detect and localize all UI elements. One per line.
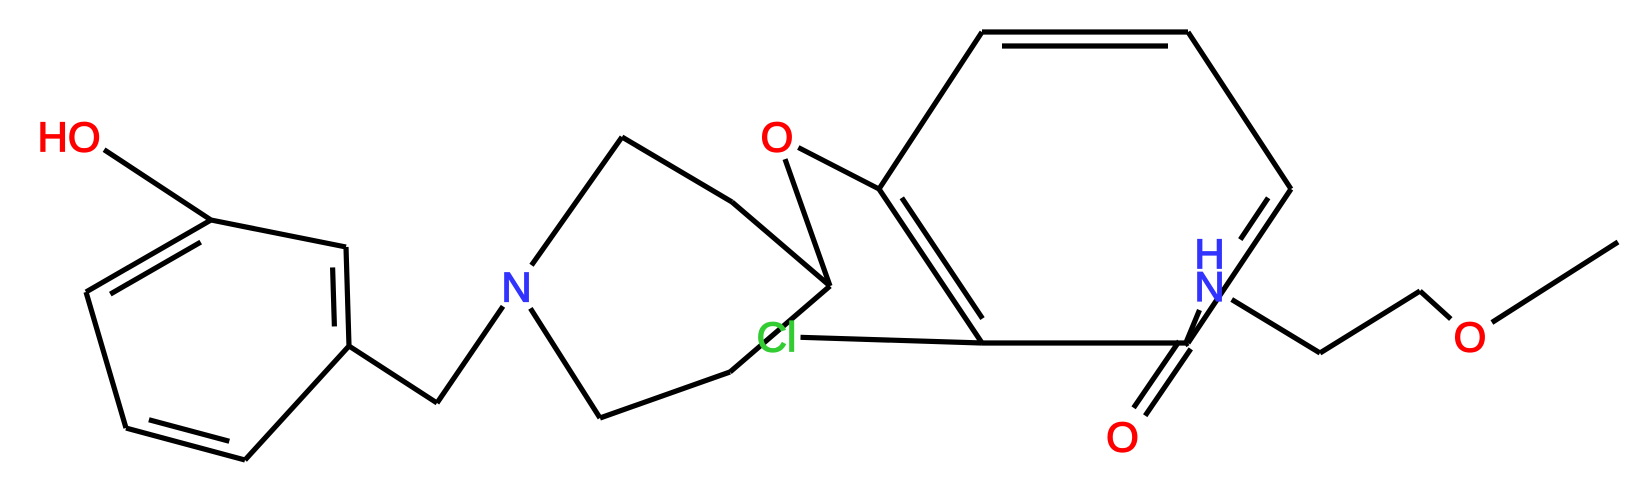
benzene inner double D-E: [1240, 198, 1268, 240]
svg-text:Cl: Cl: [757, 314, 797, 361]
bond O(phenol)-C1: [104, 150, 211, 220]
bond Ar-Cl: [801, 337, 983, 343]
phenol ring edge C4-C5: [245, 346, 349, 460]
bond O(ether)-Ar: [798, 148, 879, 190]
bond C(carbonyl)-N: [1185, 310, 1200, 345]
piperidine C5-C6: [600, 372, 730, 418]
benzene edge F-A: [879, 189, 982, 343]
phenol inner double C1-C2: [110, 242, 200, 294]
phenol inner double C5-C6: [333, 267, 335, 326]
benzene inner double F-A: [902, 198, 983, 319]
benzene edge B-C: [982, 29, 1188, 34]
benzene edge D-E: [1188, 189, 1291, 343]
bond CH2-CH2: [1320, 291, 1420, 353]
double bond C=O: [1145, 349, 1191, 416]
bond Ar-C(carbonyl): [1185, 343, 1188, 345]
svg-text:N: N: [1194, 263, 1224, 310]
svg-text:HO: HO: [38, 114, 101, 161]
phenol ring edge C5-C6: [346, 247, 349, 346]
bond O-CH3: [1492, 242, 1618, 323]
benzene inner double B-C: [1002, 43, 1168, 48]
benzene edge C-D: [1188, 32, 1291, 189]
double bond C=O: [1134, 341, 1180, 408]
chain bond Ar-CH2: [349, 346, 437, 403]
chain bond CH2-N: [437, 306, 503, 403]
phenol ring edge C6-C1: [211, 220, 346, 247]
piperidine C4-C5: [730, 286, 830, 372]
bond N-CH2: [1232, 300, 1320, 354]
piperidine C6-N: [530, 308, 600, 418]
piperidine C3-C4: [732, 202, 830, 286]
benzene edge A-B: [879, 32, 982, 189]
piperidine C2-C3: [622, 137, 732, 202]
svg-text:N: N: [501, 264, 531, 311]
bond CH2-O: [1420, 291, 1451, 319]
svg-text:O: O: [1454, 314, 1487, 361]
phenol inner double C3-C4: [149, 420, 229, 442]
phenol ring edge C2-C3: [86, 292, 126, 428]
benzene edge E-F: [982, 340, 1188, 345]
bond C4-O(ether): [785, 159, 830, 286]
svg-text:O: O: [1106, 414, 1139, 461]
phenol ring edge C1-C2: [86, 220, 211, 292]
svg-text:O: O: [761, 114, 794, 161]
phenol ring edge C3-C4: [126, 428, 245, 460]
piperidine N-C2: [532, 137, 623, 265]
